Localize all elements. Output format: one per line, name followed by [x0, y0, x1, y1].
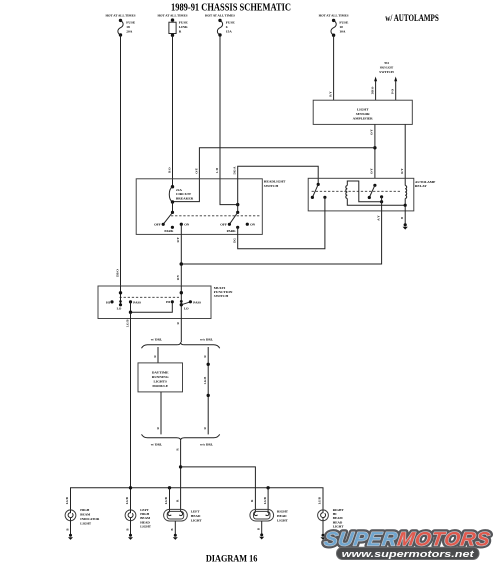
ground G4	[173, 534, 178, 540]
wire lamp3 to ground	[174, 521, 176, 535]
svg-text:PARK: PARK	[164, 229, 174, 233]
svg-text:B: B	[125, 528, 129, 530]
wire lamp4 to ground	[261, 521, 263, 534]
svg-text:20A: 20A	[126, 30, 133, 34]
brace split w/ DRL vs w/o DRL	[142, 342, 220, 348]
node feed contact right	[180, 291, 183, 294]
ground G3	[128, 534, 133, 540]
svg-text:FUSE: FUSE	[226, 21, 236, 25]
node splice upper	[207, 363, 210, 366]
svg-text:R/Y: R/Y	[176, 274, 180, 280]
svg-text:HOT AT ALL TIMES: HOT AT ALL TIMES	[106, 14, 136, 18]
node ON right	[246, 223, 249, 226]
fuse 10 10A	[331, 19, 336, 37]
svg-text:OFF: OFF	[154, 223, 161, 227]
wire coil K2 to ground	[404, 199, 406, 225]
wire lamp2 to ground	[130, 521, 132, 535]
svg-text:P/O: P/O	[391, 88, 395, 94]
wire L/B fuse 6 to headlight switch	[220, 35, 238, 205]
switch lever to PASS right	[181, 302, 190, 305]
svg-text:FUSE: FUSE	[126, 21, 136, 25]
svg-text:LIGHT: LIGHT	[80, 522, 92, 526]
svg-text:DG: DG	[233, 238, 237, 243]
headlight switch box	[136, 179, 262, 235]
circuit breaker 22A	[169, 185, 174, 204]
switch right lever to OFF	[229, 212, 237, 224]
svg-text:MODULE: MODULE	[152, 384, 168, 388]
svg-text:OFF: OFF	[220, 223, 227, 227]
wire coil top to contact node	[347, 181, 381, 202]
node PARK left	[171, 226, 174, 229]
node HI position right	[171, 300, 174, 303]
node PASS position right	[189, 300, 192, 303]
svg-text:w/ AUTOLAMPS: w/ AUTOLAMPS	[385, 13, 439, 23]
svg-text:SWITCH: SWITCH	[379, 70, 394, 74]
label AUTOLAMP RELAY	[415, 180, 436, 188]
fuse 6 15A	[217, 19, 222, 37]
dashed gang line headlight switch	[171, 215, 261, 217]
svg-text:w/o DRL: w/o DRL	[200, 338, 214, 342]
svg-text:LG/B: LG/B	[125, 497, 129, 504]
svg-text:DB/O: DB/O	[116, 269, 120, 277]
svg-text:PASS: PASS	[193, 300, 201, 304]
relay switch 2 output contact	[380, 195, 383, 198]
node contact right upper	[180, 300, 183, 303]
svg-text:6: 6	[226, 25, 228, 29]
value label 22A CIRCUIT BREAKER	[176, 188, 194, 200]
node junction bus at left headlight	[168, 486, 171, 489]
svg-text:DB/O: DB/O	[371, 86, 375, 94]
svg-text:RELAY: RELAY	[415, 184, 427, 188]
svg-text:R/Y: R/Y	[400, 168, 404, 174]
wire LG/B high beam from multi-function switch	[130, 312, 132, 510]
svg-text:FUSE: FUSE	[179, 21, 189, 25]
wire DG/A headlight switch to relay	[238, 166, 319, 204]
svg-text:B: B	[170, 528, 174, 530]
wire O/Y headlight switch branch	[173, 148, 375, 202]
svg-text:AMPLIFIER: AMPLIFIER	[353, 116, 374, 120]
svg-text:LIGHTS: LIGHTS	[153, 379, 166, 383]
node junction R/Y	[180, 262, 184, 266]
svg-text:LG/B: LG/B	[263, 497, 267, 504]
ground G6	[321, 534, 326, 540]
relay switch 1 output contact	[323, 196, 326, 199]
svg-text:O/Y: O/Y	[369, 128, 373, 134]
node feed contact left	[119, 291, 122, 294]
node junction ground tie	[404, 204, 407, 207]
relay coil K1	[346, 186, 348, 199]
wire lamp5 to ground	[322, 521, 324, 535]
svg-text:RIGHT: RIGHT	[277, 510, 289, 514]
label DAYTIME RUNNING LIGHTS MODULE	[152, 371, 169, 388]
node TO MAIN LIGHT SWITCH	[379, 61, 394, 74]
svg-text:SWITCH: SWITCH	[264, 184, 279, 188]
label HEADLIGHT SWITCH	[264, 180, 286, 188]
svg-text:LIGHT: LIGHT	[140, 524, 152, 528]
watermark web address bar	[337, 547, 480, 560]
svg-text:TO: TO	[384, 61, 389, 65]
label MULTI FUNCTION SWITCH	[214, 286, 233, 298]
lamp left high beam headlight	[125, 510, 136, 521]
svg-text:A/Y: A/Y	[376, 215, 380, 221]
label LEFT HEAD LIGHT	[191, 510, 203, 523]
wire R to DRL module	[157, 347, 159, 363]
label LIGHT SENSOR AMPLIFIER	[353, 108, 374, 121]
svg-text:w/ DRL: w/ DRL	[151, 338, 163, 342]
svg-text:DIAGRAM 16: DIAGRAM 16	[206, 553, 258, 563]
svg-text:HEAD: HEAD	[277, 514, 287, 518]
wire R/Y headlight switch ON output	[180, 224, 182, 286]
svg-text:LIGHT: LIGHT	[277, 519, 289, 523]
svg-text:LINK: LINK	[179, 25, 188, 29]
fuse link R	[169, 18, 176, 37]
lamp right high beam headlight	[318, 510, 329, 521]
wire A/Y relay output to R/Y junction	[181, 197, 381, 264]
node LO position left	[119, 303, 122, 306]
svg-text:www.supermotors.net: www.supermotors.net	[342, 549, 475, 560]
ground G1	[403, 223, 408, 229]
wire R/Y amplifier to relay coil	[404, 124, 406, 185]
lamp left headlight dual filament	[164, 509, 188, 521]
op-amp U1 light sensor amplifier box	[313, 100, 412, 124]
switch right section contact	[236, 211, 239, 214]
svg-text:R/Y: R/Y	[329, 91, 333, 97]
svg-text:MAIN LIGHT: MAIN LIGHT	[380, 66, 394, 70]
svg-text:BREAKER: BREAKER	[176, 196, 194, 200]
switch left section contact	[171, 211, 174, 214]
wire DB/O arrow to main light switch	[374, 77, 377, 101]
node junction low beam	[179, 465, 182, 468]
svg-text:R/Y: R/Y	[176, 236, 180, 242]
svg-text:LEFT: LEFT	[191, 510, 200, 514]
wire R module output	[160, 392, 162, 435]
wire R to right headlight low	[181, 467, 256, 512]
svg-text:INDICATOR: INDICATOR	[80, 517, 100, 521]
wire DB/O feed into dimmer lever	[120, 286, 122, 305]
node OFF right	[228, 223, 231, 226]
wire breaker to left contact	[172, 202, 174, 212]
svg-text:LG/B: LG/B	[125, 319, 129, 327]
wire pass tie to right HI	[131, 302, 173, 312]
relay switch 2 lever end	[368, 196, 371, 199]
node OFF left	[162, 223, 165, 226]
brace merge w/ DRL vs w/o DRL	[142, 434, 220, 440]
wire P/O arrow to main light switch	[394, 77, 397, 101]
svg-text:L/B: L/B	[215, 167, 219, 173]
relay switch 1 pivot	[317, 183, 320, 186]
node HI position left	[110, 300, 113, 303]
svg-text:B: B	[65, 528, 69, 530]
svg-text:DAYTIME: DAYTIME	[152, 371, 169, 375]
svg-text:R/O: R/O	[168, 167, 172, 173]
svg-text:1989-91 CHASSIS SCHEMATIC: 1989-91 CHASSIS SCHEMATIC	[171, 1, 291, 13]
svg-text:HOT AT ALL TIMES: HOT AT ALL TIMES	[205, 14, 235, 18]
wire junction to right contact	[237, 205, 239, 213]
node dimmer pivot right	[180, 303, 183, 306]
autolamp relay box	[308, 178, 414, 211]
node splice lower	[207, 394, 210, 397]
ground G5	[259, 533, 264, 539]
svg-text:HOT AT ALL TIMES: HOT AT ALL TIMES	[158, 14, 188, 18]
svg-text:w/ DRL: w/ DRL	[151, 443, 163, 447]
svg-text:FUSE: FUSE	[339, 21, 349, 25]
svg-text:SWITCH: SWITCH	[214, 294, 229, 298]
svg-text:LG/B: LG/B	[203, 376, 207, 384]
wire coil bottom to ground node	[347, 199, 405, 206]
wire R/O fuse link to circuit breaker	[172, 35, 174, 187]
svg-text:w/o DRL: w/o DRL	[200, 443, 214, 447]
dashed gang line autolamp relay	[312, 190, 402, 192]
wire R bypass w/o DRL	[207, 347, 209, 434]
relay switch 2 pivot	[373, 184, 376, 187]
label RIGHT HI BEAM HEAD LIGHT	[333, 508, 345, 528]
label RIGHT HEAD LIGHT	[277, 510, 289, 523]
svg-text:DG/A: DG/A	[233, 166, 237, 175]
wire lamp1 to ground	[70, 521, 72, 535]
svg-text:ON: ON	[250, 223, 256, 227]
svg-text:LIGHT: LIGHT	[191, 519, 203, 523]
wire R/Y feed through dimmer right	[180, 286, 182, 319]
svg-text:HOT AT ALL TIMES: HOT AT ALL TIMES	[319, 14, 349, 18]
dashed gang line multi-function switch	[120, 296, 180, 298]
wire R multi-function switch to split	[180, 319, 182, 343]
svg-text:LG/B: LG/B	[164, 497, 168, 504]
node ON left	[180, 223, 183, 226]
svg-text:O/Y: O/Y	[369, 167, 373, 173]
svg-text:LO: LO	[184, 306, 189, 310]
node contact left mid	[119, 300, 122, 303]
switch left lever to OFF	[163, 212, 172, 224]
node junction high beam output	[129, 311, 132, 314]
node junction bus at left high beam	[129, 486, 132, 489]
wire LG/B high beam bus	[71, 488, 324, 510]
relay switch 2 lever	[369, 185, 375, 197]
node PASS position left	[129, 300, 132, 303]
multi-function switch box	[98, 286, 211, 319]
relay switch 1 lever end	[311, 196, 314, 199]
svg-text:HIGH: HIGH	[80, 508, 89, 512]
svg-text:BEAM: BEAM	[80, 513, 91, 517]
wire DG park contact to relay switch 1	[238, 197, 325, 249]
svg-text:PASS: PASS	[133, 300, 141, 304]
svg-text:HEAD: HEAD	[191, 514, 201, 518]
svg-text:RUNNING: RUNNING	[152, 375, 169, 379]
wire DB/O fuse 18 to multi-function switch	[120, 35, 122, 286]
ground G2	[68, 534, 73, 540]
wire bus to right headlight high pin	[267, 488, 269, 512]
lamp right headlight dual filament	[250, 509, 274, 521]
node PARK right	[236, 226, 239, 229]
watermark supermotors logo	[323, 529, 492, 551]
svg-text:15A: 15A	[226, 30, 233, 34]
svg-text:10: 10	[339, 25, 343, 29]
wire bus to left headlight high pin	[169, 488, 171, 512]
node junction bus at right headlight	[266, 486, 269, 489]
svg-text:LG/B: LG/B	[65, 497, 69, 504]
relay switch 1 lever	[312, 184, 318, 197]
svg-text:PARK: PARK	[227, 229, 237, 233]
svg-text:10A: 10A	[339, 30, 346, 34]
relay coil K2 sensor winding	[405, 186, 407, 199]
svg-text:LO: LO	[117, 306, 122, 310]
daytime running lights module box	[138, 363, 183, 392]
svg-text:LG/B: LG/B	[318, 497, 322, 504]
node junction O/Y	[373, 146, 376, 149]
wire R low beam feed down	[180, 440, 182, 512]
node junction coil tie	[380, 200, 383, 203]
wire O/Y amplifier to autolamp relay	[374, 124, 376, 178]
label HIGH BEAM INDICATOR LIGHT	[80, 508, 100, 526]
svg-text:O/Y: O/Y	[194, 167, 198, 173]
svg-text:18: 18	[126, 25, 130, 29]
switch right section junction	[236, 203, 239, 206]
label LEFT HIGH BEAM HEAD LIGHT	[140, 508, 152, 528]
svg-text:ON: ON	[184, 223, 190, 227]
lamp high beam indicator light	[65, 510, 76, 521]
fuse 18 20A	[118, 19, 123, 37]
svg-text:B: B	[257, 528, 261, 530]
wire R/Y fuse 10 to light sensor amplifier	[333, 35, 335, 100]
